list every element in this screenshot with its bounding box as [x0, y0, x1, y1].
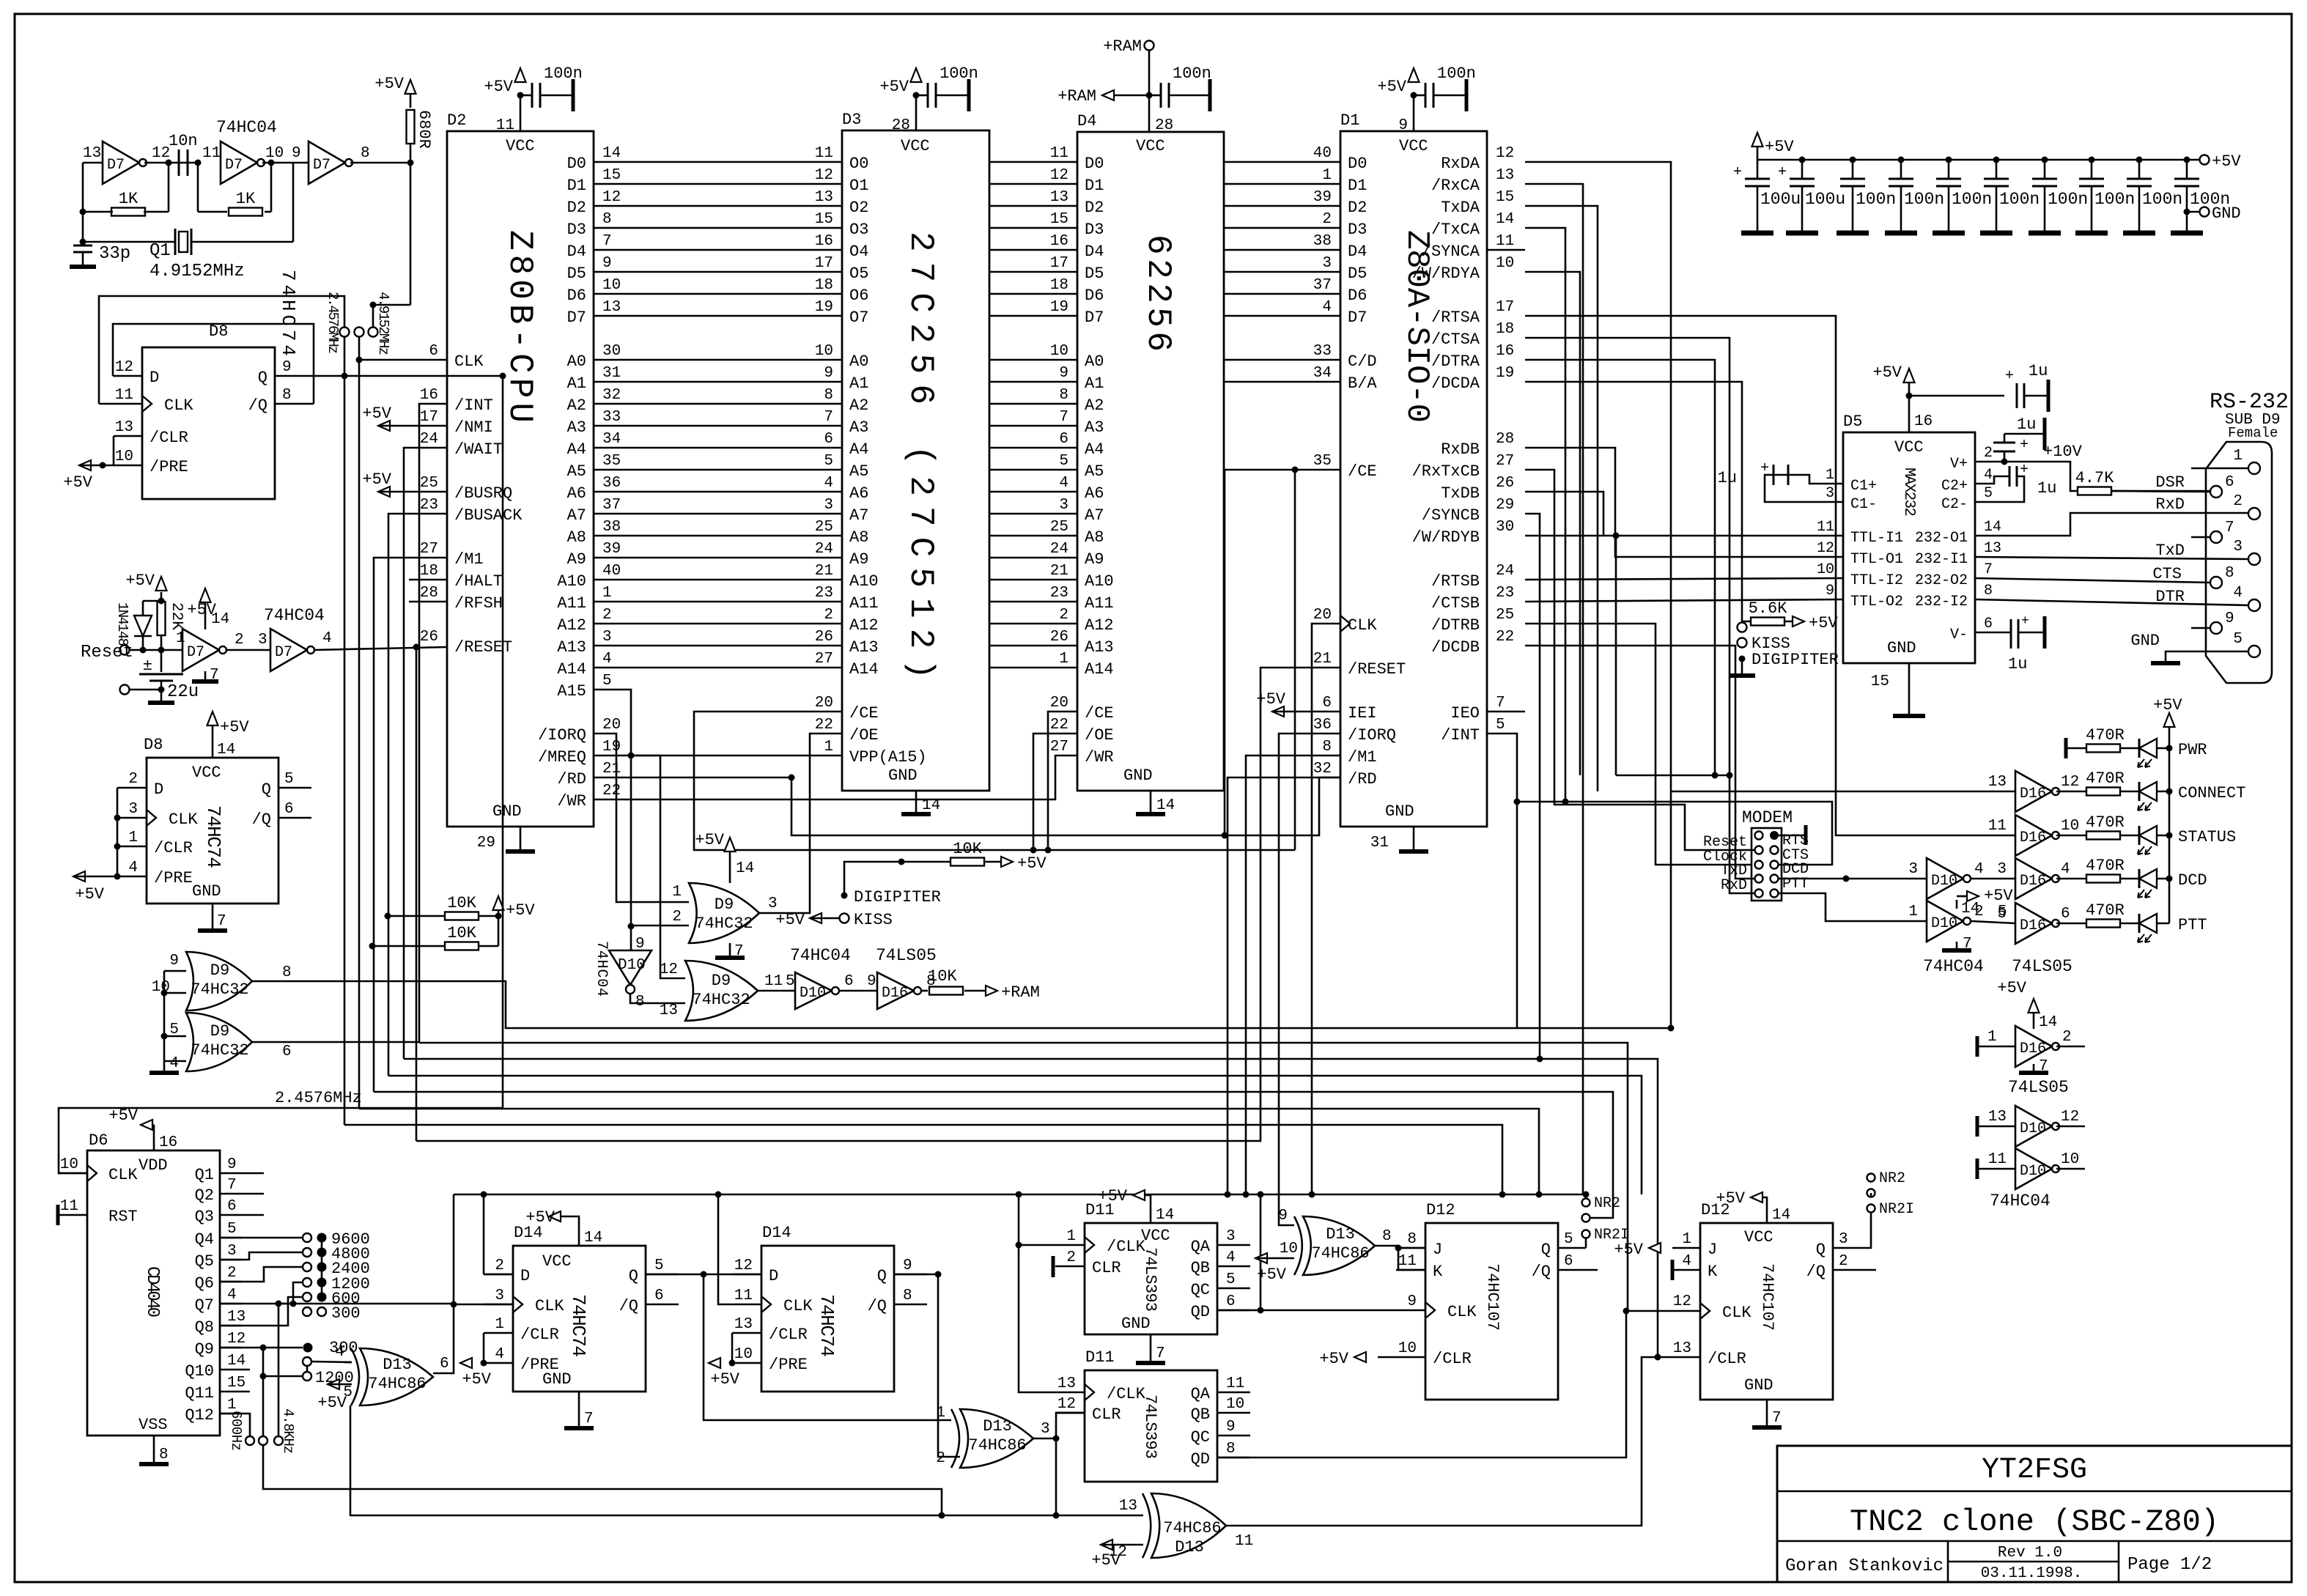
terminal NR2I right: [1867, 1205, 1875, 1213]
svg-text:/BUSRQ: /BUSRQ: [454, 484, 512, 503]
svg-text:12: 12: [2061, 774, 2079, 791]
svg-text:VCC: VCC: [1136, 137, 1165, 155]
PWR input bar: [2064, 738, 2068, 758]
svg-text:24: 24: [1050, 541, 1068, 558]
svg-text:14: 14: [227, 1353, 246, 1370]
svg-text:470R: 470R: [2086, 813, 2125, 832]
svg-text:GND: GND: [1744, 1376, 1773, 1394]
svg-text:4.9152MHz: 4.9152MHz: [150, 262, 245, 281]
svg-text:26: 26: [420, 629, 438, 646]
svg-text:5: 5: [1564, 1231, 1573, 1248]
svg-text:4: 4: [322, 630, 332, 647]
wire D14a D loop: [484, 1274, 513, 1276]
wire D4 bus b: [989, 249, 1077, 251]
svg-text:22: 22: [815, 717, 833, 734]
svg-text:/IORQ: /IORQ: [538, 726, 586, 745]
wire D14b CLK from top: [718, 1194, 732, 1304]
svg-text:6: 6: [2061, 906, 2070, 923]
diode 1N4148: [142, 636, 144, 650]
D2 pin 1 A11: [593, 601, 595, 603]
svg-text:74HC32: 74HC32: [692, 991, 750, 1009]
svg-text:4: 4: [1974, 861, 1984, 878]
svg-text:12: 12: [152, 145, 170, 162]
wire 2.4576 down bundle: [344, 376, 346, 1125]
svg-text:GND: GND: [192, 882, 221, 901]
wire V+ +10V: [1975, 462, 2078, 491]
D1 pin 18 /CTSA: [1486, 337, 1488, 339]
svg-text:2: 2: [2233, 493, 2243, 510]
svg-text:17: 17: [420, 409, 438, 426]
terminal reset cap: [120, 685, 130, 695]
svg-text:/RD: /RD: [1348, 770, 1377, 788]
svg-text:D4: D4: [567, 243, 586, 261]
svg-text:22: 22: [602, 783, 621, 799]
wire A1 bus b: [989, 381, 1077, 383]
svg-text:+5V: +5V: [63, 473, 92, 492]
svg-text:A7: A7: [567, 506, 586, 525]
wire /DCDB net: [1525, 646, 1754, 879]
svg-text:5.6K: 5.6K: [1749, 599, 1788, 618]
svg-text:4: 4: [824, 475, 833, 492]
svg-text:Q1: Q1: [150, 241, 171, 261]
svg-text:D5: D5: [1085, 265, 1104, 283]
D1 pin 29 /SYNCB: [1486, 513, 1488, 515]
wire /TxCA net: [1525, 228, 1565, 802]
D1 pin 27 /RxTxCB: [1486, 469, 1488, 471]
svg-text:11: 11: [815, 145, 833, 162]
svg-text:5: 5: [786, 973, 795, 990]
svg-text:9: 9: [1407, 1293, 1417, 1310]
wire D7 bus c: [1224, 315, 1340, 317]
svg-text:9: 9: [282, 359, 292, 376]
svg-text:74HC04: 74HC04: [1923, 957, 1984, 976]
D11 CLR pin: [1055, 1266, 1085, 1268]
svg-text:+: +: [2020, 437, 2029, 454]
svg-text:4: 4: [495, 1346, 504, 1363]
svg-text:VPP(A15): VPP(A15): [849, 748, 927, 766]
wire D4 bus c: [1224, 249, 1340, 251]
D5 pin 11 TTL-I1: [1842, 535, 1845, 537]
D11b CLR wire: [1055, 1412, 1085, 1414]
D6 pin10 CLK: [59, 1172, 87, 1175]
D1 pin 38 D4: [1340, 249, 1342, 251]
svg-text:14: 14: [1496, 211, 1514, 228]
wire A15 to VPP: [631, 755, 842, 757]
D2 pin 30 A0: [593, 359, 595, 361]
svg-text:4.7K: 4.7K: [2075, 469, 2115, 487]
terminal baud 1200: [303, 1278, 311, 1287]
D9 pin 6: [2210, 486, 2222, 498]
svg-text:Q10: Q10: [185, 1362, 214, 1381]
svg-text:D2: D2: [567, 199, 586, 217]
svg-text:10: 10: [1817, 561, 1834, 578]
LED CONNECT: [2138, 782, 2141, 801]
D4 pin 9 A1: [1077, 381, 1079, 383]
svg-text:+10V: +10V: [2043, 443, 2083, 461]
svg-text:D6: D6: [89, 1131, 108, 1150]
D4 GND: [1150, 791, 1152, 813]
svg-text:26: 26: [1496, 475, 1514, 492]
terminal baud 2400: [303, 1263, 311, 1271]
svg-text:27C256 (27C512): 27C256 (27C512): [901, 232, 940, 679]
svg-text:12: 12: [1496, 145, 1514, 162]
+5V arrow NMI: [378, 421, 390, 431]
svg-text:10: 10: [1496, 255, 1514, 272]
svg-text:KISS: KISS: [854, 911, 893, 929]
inverter D7 gate2 74HC04: [221, 141, 257, 184]
svg-text:38: 38: [1313, 233, 1332, 250]
svg-text:/W/RDYB: /W/RDYB: [1412, 528, 1480, 547]
svg-text:C1+: C1+: [1850, 478, 1877, 495]
wire D6 bus b: [989, 293, 1077, 295]
svg-text:8: 8: [1382, 1228, 1392, 1245]
D1 pin 2 D3: [1340, 227, 1342, 229]
svg-text:8: 8: [282, 387, 292, 404]
D8a pin 13 /CLR: [114, 435, 142, 437]
svg-text:A1: A1: [849, 374, 868, 393]
wire D1 CLK net: [1312, 624, 1340, 1194]
D4 pin 20 /CE: [1077, 711, 1079, 713]
svg-text:/BUSACK: /BUSACK: [454, 506, 523, 525]
D3 pin 11 O0: [841, 161, 844, 163]
svg-text:16: 16: [1496, 343, 1514, 360]
svg-text:7: 7: [227, 1177, 237, 1194]
svg-text:29: 29: [1496, 497, 1514, 514]
svg-text:14: 14: [1961, 901, 1979, 917]
resistor 1K second: [198, 211, 227, 213]
svg-text:Q: Q: [877, 1267, 887, 1285]
D1 pin 35 /CE: [1340, 469, 1342, 471]
svg-text:A13: A13: [557, 638, 586, 657]
svg-text:+5V: +5V: [1614, 1241, 1643, 1259]
svg-text:+5V: +5V: [775, 911, 805, 929]
svg-text:74LS393: 74LS393: [1141, 1247, 1159, 1312]
D2 pin 10 D6: [593, 293, 595, 295]
svg-text:8: 8: [1407, 1231, 1417, 1248]
svg-text:PWR: PWR: [2178, 741, 2207, 759]
D11 /CLK pin: [1055, 1244, 1085, 1246]
wire A15 to D10 inv: [630, 926, 632, 950]
wire D3 bus b: [989, 227, 1077, 229]
capacitor 100n bank9: [2136, 157, 2143, 163]
svg-text:39: 39: [1313, 189, 1332, 206]
svg-text:11: 11: [1235, 1533, 1253, 1550]
svg-text:12: 12: [1050, 167, 1068, 184]
D12a Q pin: [1558, 1247, 1586, 1249]
svg-text:K: K: [1708, 1263, 1718, 1281]
wire A14 bus: [594, 667, 842, 669]
wire 232-O2 to CTS: [1975, 578, 2211, 583]
wire A5 bus b: [989, 469, 1077, 471]
terminal baud 600: [303, 1293, 311, 1301]
terminal GND bank: [2187, 211, 2199, 213]
svg-text:8: 8: [1322, 739, 1332, 755]
svg-text:/DTRA: /DTRA: [1431, 352, 1480, 371]
D2 pin 9 D5: [593, 271, 595, 273]
D1 pin 13 /RxCA: [1486, 183, 1488, 185]
D2 pin 14 D0: [593, 161, 595, 163]
+5V arrow BUSRQ: [378, 487, 390, 497]
svg-text:10: 10: [1050, 343, 1068, 360]
D1 pin 26 TxDB: [1486, 491, 1488, 493]
D11 QC pin: [1217, 1287, 1250, 1290]
wire A0 bus: [594, 359, 842, 361]
svg-text:D6: D6: [1348, 287, 1367, 305]
svg-text:+: +: [1778, 164, 1787, 181]
+5V pullups: [498, 916, 500, 946]
D4 pin 3 A7: [1077, 513, 1079, 515]
wire D5 bus b: [989, 271, 1077, 273]
wire A12 bus: [594, 623, 842, 625]
wire TxDA net: [1525, 206, 1598, 791]
OR gate D9b 74HC32: [186, 1013, 252, 1071]
D11 QC pin: [1217, 1435, 1250, 1437]
svg-text:D10: D10: [2020, 1120, 2046, 1137]
svg-text:A13: A13: [849, 638, 879, 657]
wire /RTSB net: [1525, 578, 1843, 580]
svg-text:74HC107: 74HC107: [1483, 1263, 1502, 1331]
terminal NR2 left: [1583, 1192, 1590, 1198]
svg-text:D1: D1: [1348, 177, 1367, 195]
svg-text:2.4576MHz: 2.4576MHz: [325, 292, 341, 354]
svg-text:11: 11: [1226, 1375, 1244, 1392]
+5V for reset: [143, 600, 161, 602]
svg-text:/CLK: /CLK: [1107, 1385, 1146, 1403]
svg-text:Q5: Q5: [195, 1252, 214, 1271]
resistor 680R pullup: [405, 80, 416, 94]
svg-text:4: 4: [1226, 1249, 1236, 1266]
svg-text:4: 4: [1682, 1253, 1691, 1270]
svg-text:100u: 100u: [1805, 190, 1845, 209]
svg-text:A0: A0: [849, 352, 868, 371]
svg-text:24: 24: [1496, 563, 1514, 580]
svg-text:1: 1: [2233, 448, 2243, 465]
svg-text:/RESET: /RESET: [1348, 660, 1406, 679]
svg-text:/CLR: /CLR: [769, 1326, 808, 1344]
svg-text:2: 2: [495, 1257, 504, 1274]
svg-text:A3: A3: [567, 418, 586, 437]
wire D1 bus c: [1224, 183, 1340, 185]
wire /IORQ to OR1: [594, 734, 689, 902]
terminal KISS mid: [840, 914, 849, 923]
svg-text:27: 27: [1496, 453, 1514, 470]
baud bus vertical: [321, 1238, 323, 1297]
svg-text:+5V: +5V: [525, 1208, 555, 1227]
D3 pin 27 A14: [841, 667, 844, 669]
svg-text:D10: D10: [2020, 1163, 2046, 1180]
svg-text:1: 1: [128, 830, 138, 846]
D14 pin 12 D: [732, 1274, 761, 1276]
svg-text:A7: A7: [1085, 506, 1104, 525]
capacitor 100n bank7: [2042, 157, 2048, 163]
terminal mid: [355, 328, 364, 337]
D2 pin 26 /RESET: [446, 645, 449, 647]
svg-text:/TxCA: /TxCA: [1431, 221, 1480, 239]
svg-text:Q11: Q11: [185, 1384, 214, 1403]
svg-text:100n: 100n: [1904, 190, 1944, 209]
D3 pin 17 O5: [841, 271, 844, 273]
svg-text:74LS05: 74LS05: [2012, 957, 2072, 976]
svg-text:/OE: /OE: [1085, 726, 1114, 745]
resistor 470R STATUS: [2086, 832, 2120, 840]
svg-text:10: 10: [265, 145, 284, 162]
svg-text:/DCDA: /DCDA: [1431, 374, 1480, 393]
svg-text:100n: 100n: [1952, 190, 1992, 209]
svg-text:13: 13: [1673, 1340, 1691, 1357]
svg-text:11: 11: [1398, 1253, 1417, 1270]
D2 pin 36 A6: [593, 491, 595, 493]
svg-text:7: 7: [210, 667, 219, 684]
D3 pin 26 A13: [841, 645, 844, 647]
D1 pin 19 /DCDA: [1486, 381, 1488, 383]
svg-text:16: 16: [1050, 233, 1068, 250]
D1 pin 24 /RTSB: [1486, 579, 1488, 581]
wire D4 /CE route: [1048, 712, 1077, 850]
svg-text:GND: GND: [1121, 1315, 1151, 1333]
svg-text:O3: O3: [849, 221, 868, 239]
svg-text:VCC: VCC: [192, 764, 221, 782]
svg-text:+: +: [1733, 164, 1742, 181]
svg-text:13: 13: [1057, 1375, 1076, 1392]
D9 pin 5: [2248, 646, 2260, 657]
D4 pin 23 A11: [1077, 601, 1079, 603]
wire D6 bus c: [1224, 293, 1340, 295]
inverter D16 74LS05 4: [2015, 858, 2052, 899]
svg-text:2: 2: [235, 632, 244, 649]
svg-text:A9: A9: [1085, 550, 1104, 569]
svg-text:13: 13: [227, 1309, 246, 1326]
svg-text:300: 300: [331, 1304, 361, 1323]
svg-text:Q12: Q12: [185, 1406, 214, 1425]
title row lines: [1777, 1490, 2292, 1493]
D9 shell outline: [2206, 442, 2272, 683]
wire /M1 net: [374, 558, 447, 1092]
D4 pin 18 D6: [1077, 293, 1079, 295]
D12b J pin +5V: [1672, 1247, 1700, 1249]
IC D5 box: [1843, 432, 1975, 663]
svg-text:10: 10: [115, 448, 133, 465]
D8a pin 8 /Q: [275, 403, 314, 405]
D14 pin 1 /CLR: [484, 1332, 513, 1334]
D5 pin 3 C1-: [1842, 501, 1845, 503]
capacitor 100n bank3: [1850, 157, 1856, 163]
svg-text:18: 18: [1496, 321, 1514, 338]
wire 232-I1 to TxD: [1975, 557, 2249, 559]
svg-text:/PRE: /PRE: [150, 458, 188, 476]
OR1 gnd: [729, 943, 731, 956]
svg-text:PTT: PTT: [2178, 916, 2207, 934]
wire GND D9: [2166, 651, 2248, 662]
svg-text:13: 13: [1050, 189, 1068, 206]
junction DCD: [1843, 876, 1850, 882]
svg-text:+5V: +5V: [2212, 152, 2241, 171]
svg-text:A0: A0: [567, 352, 586, 371]
svg-text:14: 14: [602, 145, 621, 162]
svg-text:15: 15: [815, 211, 833, 228]
svg-text:12: 12: [115, 359, 133, 376]
D1 pin 22 /DCDB: [1486, 645, 1488, 647]
svg-text:16: 16: [815, 233, 833, 250]
svg-text:+5V: +5V: [125, 572, 155, 590]
svg-text:10: 10: [1226, 1396, 1244, 1413]
D4 VCC +RAM decoupling: [1148, 95, 1151, 132]
IC D1 box: [1340, 131, 1487, 827]
D1 clock wedge: [1340, 616, 1350, 632]
svg-text:13: 13: [1988, 774, 2007, 791]
svg-text:/M1: /M1: [1348, 748, 1377, 766]
D2 pin 3 A13: [593, 645, 595, 647]
OR gate D9 74HC32 decode1: [689, 883, 759, 943]
svg-text:6: 6: [1059, 431, 1068, 448]
wire h1058 left: [1616, 775, 1730, 777]
D2 pin 16 /INT: [446, 403, 449, 405]
inverter D16 74LS05 10: [2015, 815, 2052, 856]
svg-text:32: 32: [1313, 761, 1332, 777]
svg-text:8: 8: [282, 964, 292, 981]
D3 pin 13 O2: [841, 205, 844, 207]
wire 1200 tap lower left: [263, 1375, 303, 1378]
svg-text:D9: D9: [210, 961, 229, 980]
D3 pin 23 A11: [841, 601, 844, 603]
wire OR1 out to /OE: [759, 734, 842, 913]
+5V arrow IEI: [1272, 706, 1284, 717]
svg-text:D5: D5: [1348, 265, 1367, 283]
svg-text:Q: Q: [1816, 1241, 1826, 1259]
svg-text:/RTSB: /RTSB: [1431, 572, 1480, 591]
wire D1 /M1: [1246, 755, 1340, 1194]
terminal KISS right: [1738, 623, 1747, 632]
svg-text:6: 6: [282, 1043, 292, 1060]
svg-text:25: 25: [815, 519, 833, 536]
svg-text:11: 11: [496, 117, 514, 134]
D8a clr-pre wiring: [113, 436, 115, 465]
svg-text:D4: D4: [1085, 243, 1104, 261]
D7 gate4 power: [204, 602, 207, 629]
svg-text:21: 21: [815, 563, 833, 580]
wire clk select to CPU CLK: [358, 337, 361, 360]
wire NR2 right vert: [1856, 1213, 1871, 1248]
svg-text:3: 3: [1997, 861, 2007, 878]
svg-text:31: 31: [602, 365, 621, 382]
svg-text:7: 7: [824, 409, 833, 426]
svg-text:7: 7: [1156, 1345, 1165, 1362]
svg-text:+5V: +5V: [1765, 138, 1794, 156]
svg-text:D0: D0: [1085, 155, 1104, 173]
svg-text:+5V: +5V: [506, 901, 535, 920]
D2 pin 22 /WR: [593, 799, 595, 801]
svg-text:C2+: C2+: [1941, 478, 1968, 495]
OR gate D9 74HC32 decode2: [685, 961, 758, 1021]
svg-text:GND: GND: [1385, 802, 1414, 821]
svg-text:22: 22: [1496, 629, 1514, 646]
wire 1200 tap upper to xor: [311, 1362, 352, 1362]
wire /W/RDYA net: [1525, 272, 1580, 775]
svg-text:12: 12: [815, 167, 833, 184]
svg-text:10: 10: [2061, 1151, 2079, 1168]
D3 pin 16 O4: [841, 249, 844, 251]
svg-text:+5V: +5V: [1257, 1266, 1286, 1284]
wire A2 bus b: [989, 403, 1077, 405]
svg-text:3: 3: [2233, 539, 2243, 555]
svg-text:D6: D6: [567, 287, 586, 305]
D4 pin 6 A4: [1077, 447, 1079, 449]
svg-text:D: D: [520, 1267, 530, 1285]
wire A4 bus: [594, 447, 842, 449]
svg-text:74HC04: 74HC04: [593, 941, 610, 997]
wire 600Hz select down: [263, 1446, 942, 1515]
svg-text:74HC86: 74HC86: [368, 1375, 426, 1393]
D9 pin9 stub: [2191, 627, 2210, 629]
